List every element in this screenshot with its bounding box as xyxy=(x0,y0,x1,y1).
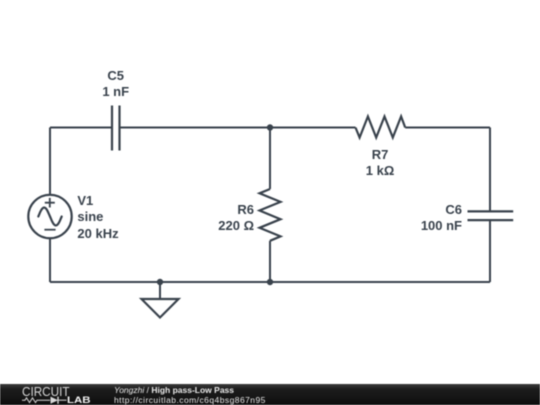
svg-text:CIRCUIT: CIRCUIT xyxy=(22,384,70,399)
svg-text:LAB: LAB xyxy=(67,395,91,405)
